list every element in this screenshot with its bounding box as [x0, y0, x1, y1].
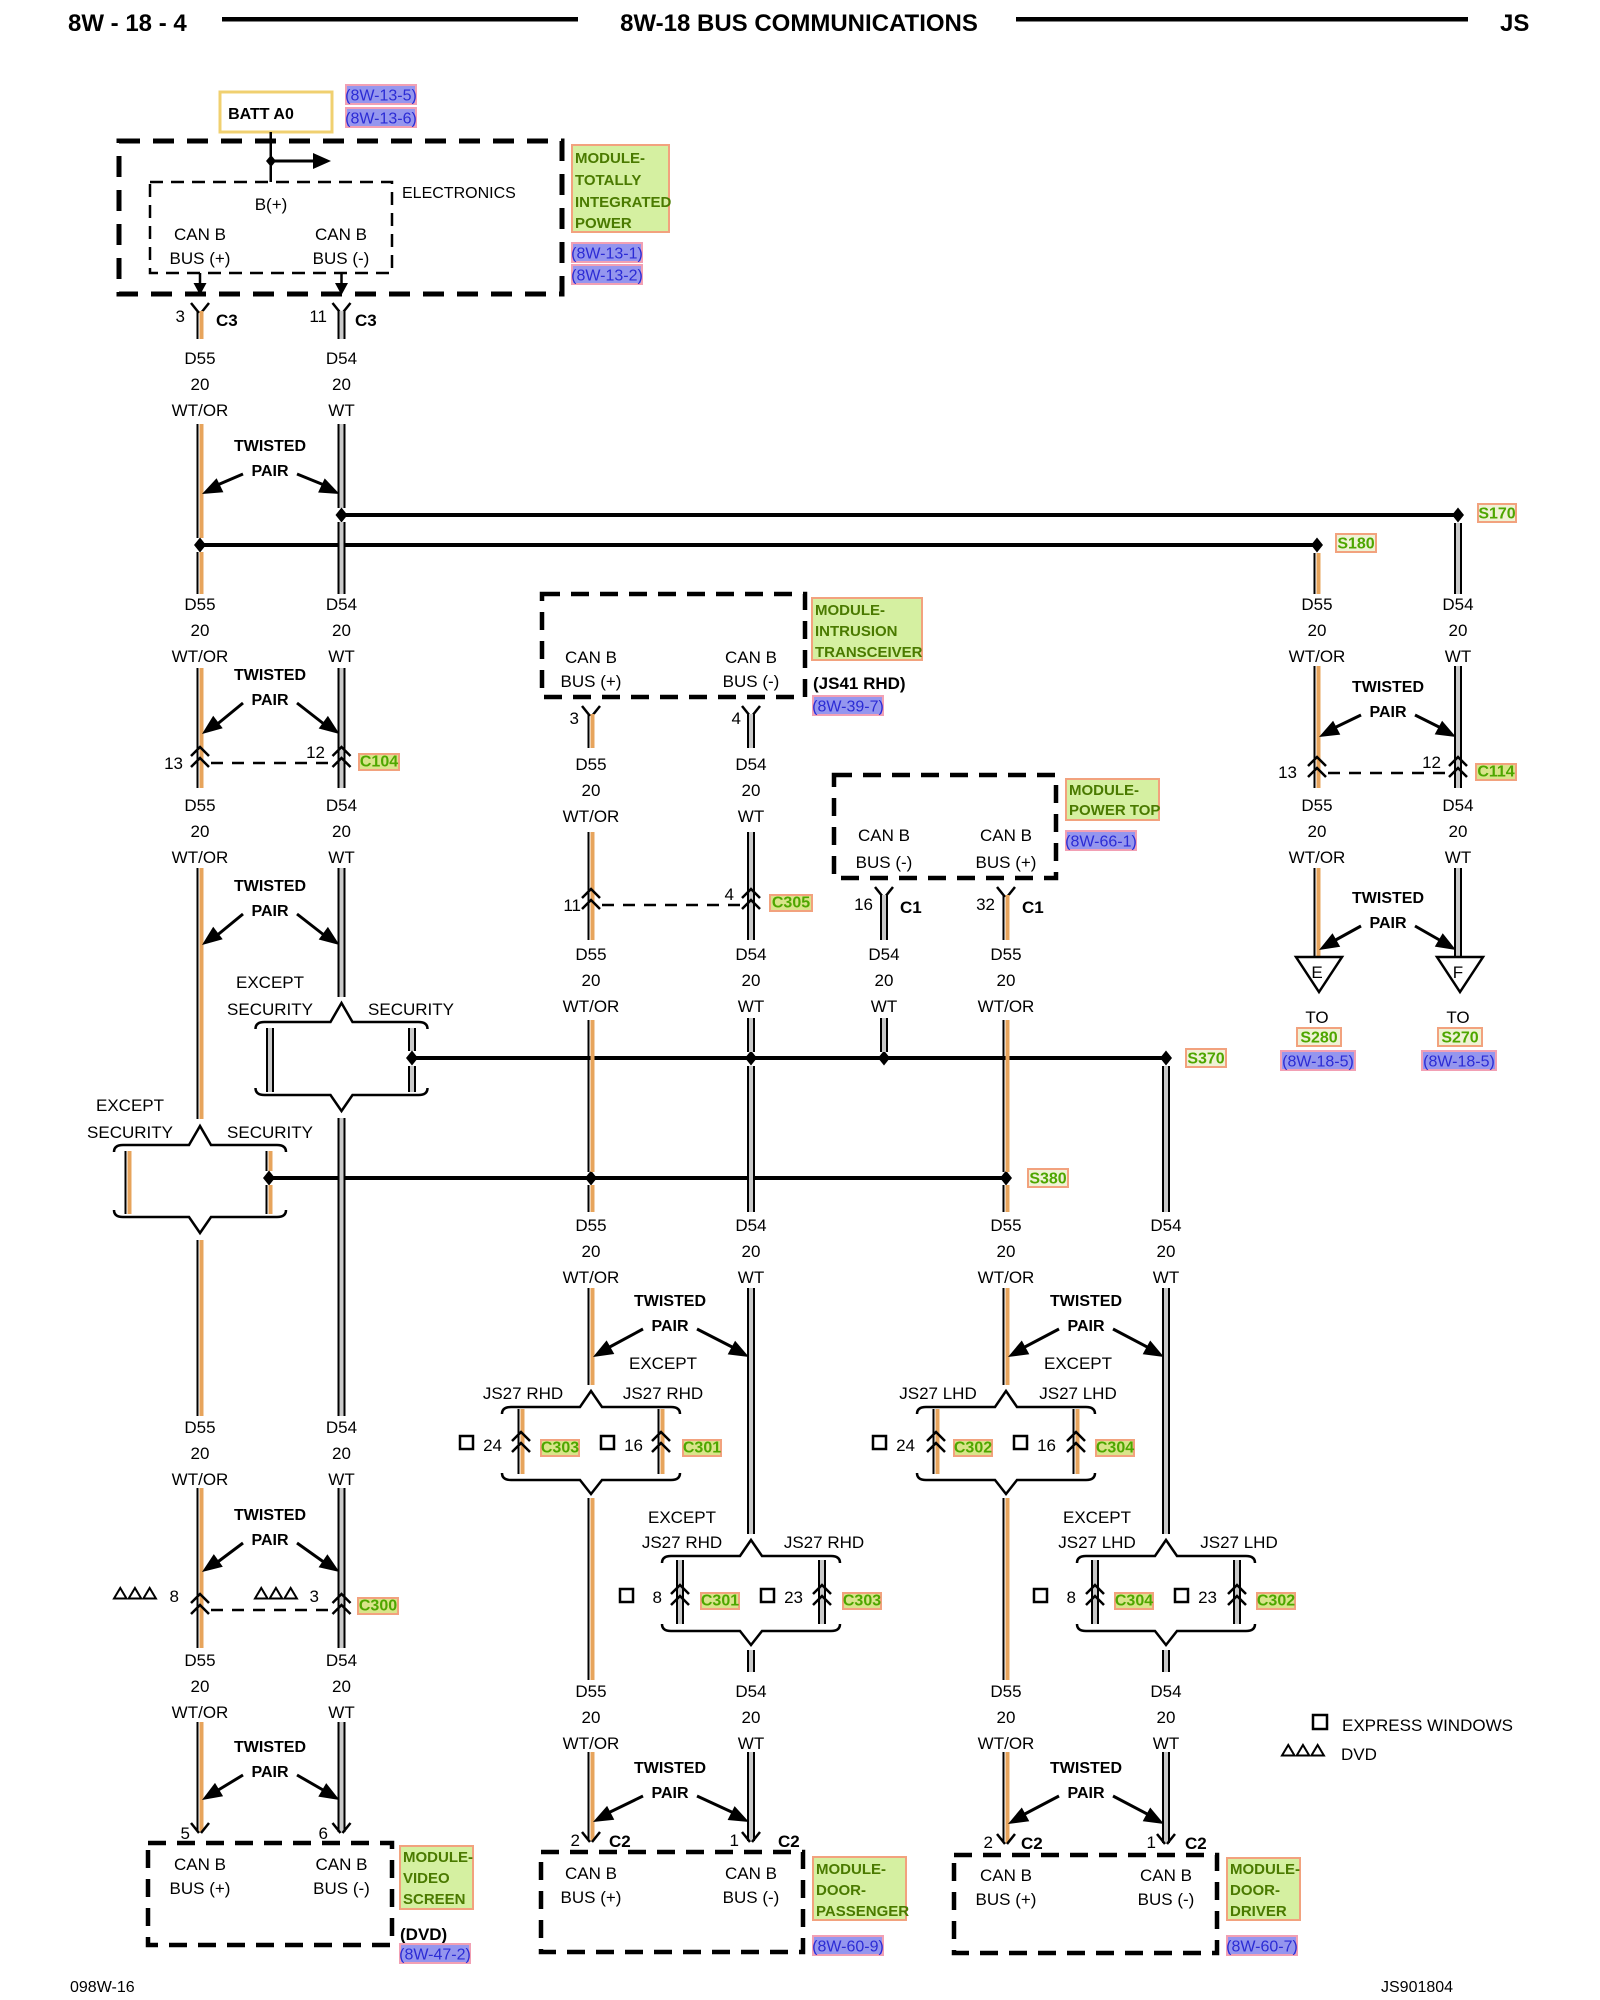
- svg-text:C3: C3: [355, 311, 377, 330]
- option brace over D55: [114, 1126, 286, 1152]
- svg-text:D54: D54: [1150, 1682, 1181, 1701]
- svg-text:WT/OR: WT/OR: [172, 401, 229, 420]
- svg-text:13: 13: [1278, 763, 1297, 782]
- connector C304 chevrons: [1086, 1585, 1104, 1594]
- svg-text:20: 20: [191, 1677, 210, 1696]
- svg-text:INTEGRATED: INTEGRATED: [575, 194, 672, 211]
- svg-text:E: E: [1311, 963, 1322, 982]
- svg-text:16: 16: [854, 895, 873, 914]
- svg-text:MODULE-: MODULE-: [815, 602, 885, 619]
- svg-text:D54: D54: [326, 1418, 357, 1437]
- svg-text:BUS (-): BUS (-): [313, 1879, 370, 1898]
- svg-text:D55: D55: [990, 945, 1021, 964]
- connector label C301: [701, 1593, 739, 1609]
- svg-text:20: 20: [997, 1708, 1016, 1727]
- svg-text:13: 13: [164, 754, 183, 773]
- wire D55 stub below S380: [588, 1185, 590, 1212]
- module DOOR-PASSENGER dashed box: [541, 1852, 803, 1952]
- connector C303 chevrons: [512, 1432, 530, 1441]
- wire D54 stub below construct: [747, 1650, 749, 1672]
- svg-text:WT/OR: WT/OR: [1289, 647, 1346, 666]
- svg-text:D55: D55: [184, 796, 215, 815]
- splice label S170: [1478, 504, 1516, 522]
- svg-text:WT/OR: WT/OR: [563, 1734, 620, 1753]
- svg-text:C304: C304: [1096, 1440, 1134, 1457]
- svg-text:PASSENGER: PASSENGER: [816, 1903, 909, 1920]
- svg-text:20: 20: [191, 822, 210, 841]
- wire D54 branch security upper: [408, 1028, 410, 1051]
- svg-text:D55: D55: [1301, 796, 1332, 815]
- svg-text:20: 20: [332, 822, 351, 841]
- svg-text:TWISTED: TWISTED: [234, 1507, 306, 1524]
- splice junction on security branch: [263, 1171, 275, 1186]
- svg-text:JS901804: JS901804: [1381, 1979, 1453, 1996]
- svg-text:C2: C2: [609, 1832, 631, 1851]
- svg-text:C301: C301: [701, 1593, 739, 1610]
- wire D55 stub below C3: [197, 311, 199, 339]
- wire D55 stub: [588, 714, 590, 748]
- svg-text:TWISTED: TWISTED: [634, 1760, 706, 1777]
- svg-text:CAN B: CAN B: [980, 826, 1032, 845]
- svg-text:C1: C1: [1022, 898, 1044, 917]
- module INTRUSION TRANSCEIVER dashed box: [542, 594, 805, 697]
- wire D54 long segment: [338, 1118, 340, 1416]
- wire D55 stub: [1003, 895, 1005, 940]
- wire D55 branch except-security: [125, 1151, 127, 1214]
- wire branch left: [518, 1409, 520, 1474]
- svg-text:PAIR: PAIR: [1369, 704, 1406, 721]
- svg-text:SCREEN: SCREEN: [403, 1891, 466, 1908]
- connector label C302: [1257, 1593, 1295, 1609]
- svg-text:DOOR-: DOOR-: [816, 1882, 866, 1899]
- svg-text:20: 20: [1157, 1242, 1176, 1261]
- svg-text:TWISTED: TWISTED: [1050, 1760, 1122, 1777]
- svg-text:SECURITY: SECURITY: [227, 1123, 313, 1142]
- svg-text:CAN B: CAN B: [858, 826, 910, 845]
- svg-text:(JS41 RHD): (JS41 RHD): [813, 674, 906, 693]
- svg-text:WT/OR: WT/OR: [172, 1703, 229, 1722]
- splice label S370: [1186, 1049, 1226, 1067]
- wire D54 segment: [747, 832, 749, 940]
- svg-text:23: 23: [784, 1588, 803, 1607]
- svg-text:11: 11: [309, 307, 327, 326]
- svg-text:32: 32: [976, 895, 995, 914]
- svg-text:12: 12: [306, 743, 325, 762]
- svg-text:D54: D54: [735, 945, 766, 964]
- connector C302 chevrons: [1228, 1585, 1246, 1594]
- svg-text:(8W-13-6): (8W-13-6): [345, 111, 417, 128]
- green label MODULE-VIDEO SCREEN: [400, 1846, 473, 1909]
- svg-text:3: 3: [176, 307, 185, 326]
- svg-text:JS27 RHD: JS27 RHD: [483, 1384, 563, 1403]
- svg-text:PAIR: PAIR: [1369, 915, 1406, 932]
- svg-text:EXCEPT: EXCEPT: [96, 1096, 164, 1115]
- connector label C302: [954, 1440, 992, 1456]
- svg-text:ELECTRONICS: ELECTRONICS: [402, 185, 516, 202]
- wire D55 stub below S380: [1003, 1185, 1005, 1212]
- splice S370 junction power-top D54: [878, 1051, 890, 1066]
- svg-text:20: 20: [191, 375, 210, 394]
- svg-text:TWISTED: TWISTED: [234, 438, 306, 455]
- svg-text:D54: D54: [326, 1651, 357, 1670]
- svg-text:TWISTED: TWISTED: [234, 1739, 306, 1756]
- svg-text:JS: JS: [1500, 10, 1529, 37]
- reference label (8W-60-7): [1227, 1936, 1297, 1955]
- svg-text:JS27 LHD: JS27 LHD: [1200, 1533, 1277, 1552]
- svg-text:3: 3: [310, 1587, 319, 1606]
- svg-text:C302: C302: [954, 1440, 992, 1457]
- wire D54 segment below S370: [1162, 1066, 1164, 1212]
- svg-text:20: 20: [332, 375, 351, 394]
- connector label C305: [770, 895, 812, 911]
- svg-text:SECURITY: SECURITY: [227, 1000, 313, 1019]
- svg-text:EXCEPT: EXCEPT: [1063, 1508, 1131, 1527]
- svg-text:WT: WT: [328, 1470, 354, 1489]
- module VIDEO SCREEN dashed box: [148, 1843, 392, 1945]
- svg-text:D54: D54: [326, 349, 357, 368]
- svg-text:WT/OR: WT/OR: [978, 1734, 1035, 1753]
- svg-text:WT/OR: WT/OR: [172, 647, 229, 666]
- wire branch right: [658, 1409, 660, 1474]
- svg-text:PAIR: PAIR: [251, 1532, 288, 1549]
- connector C304 chevrons: [1067, 1432, 1085, 1441]
- wire branch left: [676, 1560, 678, 1624]
- svg-text:20: 20: [332, 1677, 351, 1696]
- green label MODULE-POWER TOP: [1066, 779, 1159, 820]
- svg-text:TWISTED: TWISTED: [1352, 890, 1424, 907]
- option marker square left: [460, 1436, 473, 1449]
- splice S180 junction left: [194, 538, 206, 553]
- wire D54 segment below S170: [338, 522, 340, 594]
- svg-text:WT/OR: WT/OR: [172, 1470, 229, 1489]
- svg-text:TO: TO: [1446, 1008, 1469, 1027]
- wire D54 segment below S370: [747, 1066, 749, 1212]
- svg-text:CAN B: CAN B: [315, 225, 367, 244]
- option marker square right: [1175, 1589, 1188, 1602]
- svg-text:WT/OR: WT/OR: [978, 997, 1035, 1016]
- option marker square left: [620, 1589, 633, 1602]
- svg-text:8: 8: [653, 1588, 662, 1607]
- svg-text:CAN B: CAN B: [980, 1866, 1032, 1885]
- svg-text:24: 24: [896, 1436, 915, 1455]
- svg-text:C2: C2: [1185, 1834, 1207, 1853]
- svg-text:PAIR: PAIR: [651, 1785, 688, 1802]
- wire D55 segment: [197, 868, 199, 1119]
- splice S370 junction right D54: [1160, 1051, 1172, 1066]
- svg-text:(8W-60-9): (8W-60-9): [812, 1939, 884, 1956]
- svg-text:D55: D55: [184, 349, 215, 368]
- svg-text:TWISTED: TWISTED: [234, 878, 306, 895]
- svg-text:20: 20: [742, 1708, 761, 1727]
- svg-text:WT: WT: [328, 401, 354, 420]
- svg-text:WT/OR: WT/OR: [563, 997, 620, 1016]
- svg-text:D55: D55: [575, 945, 606, 964]
- splice S170 junction right: [1452, 508, 1464, 523]
- off-page connector E: [1296, 957, 1342, 992]
- svg-text:C2: C2: [1021, 1834, 1043, 1853]
- svg-text:B(+): B(+): [255, 195, 288, 214]
- svg-text:S180: S180: [1337, 536, 1374, 553]
- svg-text:POWER: POWER: [575, 215, 632, 232]
- option brace under: [662, 1624, 840, 1645]
- svg-text:SECURITY: SECURITY: [87, 1123, 173, 1142]
- svg-text:DVD: DVD: [1341, 1745, 1377, 1764]
- svg-text:S170: S170: [1478, 506, 1515, 523]
- svg-text:WT/OR: WT/OR: [978, 1268, 1035, 1287]
- svg-text:D54: D54: [326, 796, 357, 815]
- option marker square left: [1034, 1589, 1047, 1602]
- svg-text:C2: C2: [778, 1832, 800, 1851]
- option brace over: [1077, 1540, 1255, 1563]
- svg-text:D54: D54: [735, 755, 766, 774]
- svg-text:(8W-39-7): (8W-39-7): [812, 699, 884, 716]
- svg-text:D54: D54: [1150, 1216, 1181, 1235]
- wire D55 segment below S180: [1314, 553, 1316, 594]
- svg-text:D55: D55: [184, 1418, 215, 1437]
- option brace under: [502, 1473, 680, 1494]
- svg-text:BUS (-): BUS (-): [723, 1888, 780, 1907]
- wire D54 segment: [338, 1722, 340, 1832]
- svg-text:EXCEPT: EXCEPT: [648, 1508, 716, 1527]
- svg-text:20: 20: [1449, 621, 1468, 640]
- svg-text:20: 20: [997, 1242, 1016, 1261]
- svg-text:MODULE-: MODULE-: [816, 1861, 886, 1878]
- wire D55 segment: [197, 1722, 199, 1832]
- svg-text:TWISTED: TWISTED: [1050, 1293, 1122, 1310]
- svg-text:2: 2: [571, 1831, 580, 1850]
- wire D54 segment: [338, 424, 340, 508]
- reference label (8W-13-1): [572, 243, 642, 262]
- connector C305 dashed link: [602, 904, 740, 907]
- svg-text:C305: C305: [772, 895, 810, 912]
- svg-text:TO: TO: [1305, 1008, 1328, 1027]
- svg-text:D54: D54: [735, 1216, 766, 1235]
- module TIPM outer dashed box: [119, 141, 562, 294]
- module DOOR-DRIVER dashed box: [954, 1855, 1217, 1953]
- option marker square right: [601, 1436, 614, 1449]
- svg-text:20: 20: [875, 971, 894, 990]
- wire D55 segment through splice rows: [588, 1020, 590, 1172]
- connector label C114: [1476, 764, 1516, 780]
- connector C301 chevrons: [671, 1585, 689, 1594]
- svg-text:WT: WT: [328, 647, 354, 666]
- svg-text:D54: D54: [735, 1682, 766, 1701]
- connector C302 chevrons: [927, 1432, 945, 1441]
- svg-text:20: 20: [1157, 1708, 1176, 1727]
- wire D55 branch security upper: [266, 1151, 268, 1171]
- svg-text:TOTALLY: TOTALLY: [575, 172, 641, 189]
- svg-text:D55: D55: [990, 1682, 1021, 1701]
- svg-text:S380: S380: [1029, 1171, 1066, 1188]
- reference label (8W-66-1): [1066, 831, 1136, 850]
- header rule right: [1016, 17, 1468, 22]
- svg-text:(8W-18-5): (8W-18-5): [1282, 1054, 1354, 1071]
- svg-text:PAIR: PAIR: [251, 903, 288, 920]
- svg-text:20: 20: [582, 971, 601, 990]
- reference label (8W-18-5): [1281, 1051, 1355, 1070]
- wire D54 branch security lower: [408, 1066, 410, 1092]
- svg-text:CAN B: CAN B: [174, 1855, 226, 1874]
- wire D54 segment: [747, 1018, 749, 1052]
- reference label (8W-47-2): [400, 1944, 470, 1963]
- svg-text:8: 8: [170, 1587, 179, 1606]
- option brace under D54: [256, 1088, 428, 1111]
- option marker square left: [873, 1436, 886, 1449]
- connector C300 dashed link: [211, 1609, 330, 1612]
- svg-text:20: 20: [582, 1242, 601, 1261]
- svg-text:WT: WT: [328, 1703, 354, 1722]
- svg-text:C3: C3: [216, 311, 238, 330]
- splice S170 junction left: [336, 508, 348, 523]
- wire D54 segment: [747, 1752, 749, 1841]
- svg-text:S280: S280: [1300, 1030, 1337, 1047]
- wire branch right: [1073, 1409, 1075, 1474]
- connector label C300: [358, 1598, 398, 1614]
- splice label S180: [1336, 534, 1376, 552]
- svg-text:D55: D55: [184, 1651, 215, 1670]
- svg-text:20: 20: [1308, 822, 1327, 841]
- wire D55 segment: [197, 1488, 199, 1648]
- splice S170 rail: [340, 513, 1458, 517]
- wire D54 segment: [1454, 868, 1456, 957]
- splice S370 junction mid D54: [745, 1051, 757, 1066]
- svg-text:BUS (-): BUS (-): [313, 249, 370, 268]
- svg-text:WT/OR: WT/OR: [1289, 848, 1346, 867]
- svg-text:C302: C302: [1257, 1593, 1295, 1610]
- svg-text:D54: D54: [1442, 796, 1473, 815]
- wire D54 segment: [1162, 1288, 1164, 1534]
- svg-text:WT: WT: [1153, 1268, 1179, 1287]
- svg-text:1: 1: [730, 1831, 739, 1850]
- svg-text:F: F: [1453, 963, 1463, 982]
- svg-text:5: 5: [181, 1824, 190, 1843]
- svg-text:098W-16: 098W-16: [70, 1979, 135, 1996]
- option brace over: [917, 1391, 1095, 1414]
- svg-text:TRANSCEIVER: TRANSCEIVER: [815, 644, 923, 661]
- svg-text:20: 20: [1308, 621, 1327, 640]
- svg-text:4: 4: [732, 709, 741, 728]
- svg-text:(DVD): (DVD): [400, 1925, 447, 1944]
- wire D54 segment below S170: [1454, 523, 1456, 594]
- splice S380 rail: [269, 1176, 1006, 1180]
- svg-text:20: 20: [742, 971, 761, 990]
- svg-text:C1: C1: [900, 898, 922, 917]
- svg-text:20: 20: [191, 621, 210, 640]
- svg-text:DOOR-: DOOR-: [1230, 1882, 1280, 1899]
- connector label C304: [1115, 1593, 1153, 1609]
- svg-text:CAN B: CAN B: [316, 1855, 368, 1874]
- svg-text:MODULE-: MODULE-: [575, 150, 645, 167]
- wire D54 stub: [880, 895, 882, 940]
- svg-text:INTRUSION: INTRUSION: [815, 623, 898, 640]
- svg-text:PAIR: PAIR: [251, 692, 288, 709]
- svg-text:BUS (+): BUS (+): [561, 672, 622, 691]
- wire D55 segment to door-driver: [1003, 1498, 1005, 1680]
- reference label (8W-13-2): [572, 265, 642, 284]
- svg-text:(8W-60-7): (8W-60-7): [1226, 1939, 1298, 1956]
- option brace under D55: [114, 1210, 286, 1233]
- svg-text:WT/OR: WT/OR: [563, 807, 620, 826]
- connector label C104: [359, 754, 399, 770]
- wire D55 segment: [1314, 666, 1316, 788]
- connector C301 chevrons: [652, 1432, 670, 1441]
- wire D54 segment to S370: [880, 1018, 882, 1052]
- option marker DVD triangles right: [255, 1588, 268, 1599]
- connector C303 chevrons: [813, 1585, 831, 1594]
- green label MODULE-TOTALLY INTEGRATED POWER: [572, 145, 669, 232]
- option marker DVD triangles left: [114, 1588, 127, 1599]
- off-page connector F: [1437, 957, 1483, 992]
- wire D54 segment: [338, 868, 340, 997]
- svg-text:JS27 RHD: JS27 RHD: [623, 1384, 703, 1403]
- wire B(+) feed: [270, 132, 273, 182]
- svg-text:6: 6: [319, 1824, 328, 1843]
- reference label (8W-13-6): [346, 108, 416, 127]
- wire D54 segment: [1454, 666, 1456, 788]
- splice label S380: [1028, 1169, 1068, 1187]
- svg-text:WT/OR: WT/OR: [563, 1268, 620, 1287]
- svg-text:8W - 18 - 4: 8W - 18 - 4: [68, 10, 187, 37]
- svg-text:BUS (+): BUS (+): [561, 1888, 622, 1907]
- svg-text:WT: WT: [738, 1268, 764, 1287]
- svg-text:PAIR: PAIR: [1067, 1785, 1104, 1802]
- svg-text:DRIVER: DRIVER: [1230, 1903, 1287, 1920]
- wire D55 segment: [588, 832, 590, 940]
- wire D55 segment: [588, 1288, 590, 1385]
- svg-text:TWISTED: TWISTED: [234, 667, 306, 684]
- svg-text:8: 8: [1067, 1588, 1076, 1607]
- wire branch right: [1233, 1560, 1235, 1624]
- splice S370 rail: [412, 1056, 1166, 1060]
- svg-text:BUS (-): BUS (-): [723, 672, 780, 691]
- svg-text:20: 20: [332, 621, 351, 640]
- svg-text:(8W-13-5): (8W-13-5): [345, 88, 417, 105]
- svg-text:20: 20: [742, 781, 761, 800]
- svg-text:D54: D54: [1442, 595, 1473, 614]
- wire D54 segment: [1162, 1752, 1164, 1843]
- splice junction on security branch: [406, 1051, 418, 1066]
- svg-text:D55: D55: [575, 1216, 606, 1235]
- svg-text:C303: C303: [843, 1593, 881, 1610]
- svg-text:WT: WT: [328, 848, 354, 867]
- svg-text:EXCEPT: EXCEPT: [1044, 1354, 1112, 1373]
- reference label (8W-13-5): [346, 85, 416, 104]
- svg-text:JS27 RHD: JS27 RHD: [784, 1533, 864, 1552]
- svg-text:PAIR: PAIR: [1067, 1318, 1104, 1335]
- option marker square right: [1014, 1436, 1027, 1449]
- svg-text:JS27 LHD: JS27 LHD: [1058, 1533, 1135, 1552]
- svg-text:D55: D55: [575, 755, 606, 774]
- wire branch left: [1091, 1560, 1093, 1624]
- svg-text:BUS (-): BUS (-): [856, 853, 913, 872]
- svg-text:D55: D55: [575, 1682, 606, 1701]
- wire D54 stub below construct: [1162, 1650, 1164, 1672]
- splice S180 junction right: [1311, 538, 1323, 553]
- svg-text:WT: WT: [1153, 1734, 1179, 1753]
- svg-text:1: 1: [1147, 1833, 1156, 1852]
- module TIPM inner dashed box: [150, 182, 392, 273]
- svg-text:VIDEO: VIDEO: [403, 1870, 450, 1887]
- junction dot on B(+) feed: [266, 155, 276, 167]
- svg-text:8W-18 BUS COMMUNICATIONS: 8W-18 BUS COMMUNICATIONS: [620, 10, 978, 37]
- svg-text:24: 24: [483, 1436, 502, 1455]
- wire D54 stub: [747, 714, 749, 748]
- svg-text:(8W-66-1): (8W-66-1): [1065, 834, 1137, 851]
- svg-text:C300: C300: [359, 1598, 397, 1615]
- svg-text:CAN B: CAN B: [1140, 1866, 1192, 1885]
- svg-text:3: 3: [570, 709, 579, 728]
- svg-text:(8W-18-5): (8W-18-5): [1423, 1054, 1495, 1071]
